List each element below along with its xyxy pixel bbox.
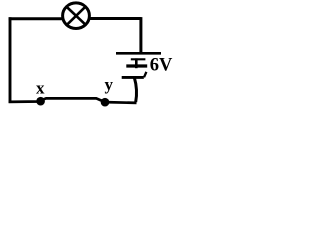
svg-text:6V: 6V xyxy=(150,55,173,75)
svg-text:y: y xyxy=(105,75,114,94)
wire top-left segment xyxy=(9,17,62,20)
node x (terminal dot) xyxy=(36,97,45,106)
wire top-right segment xyxy=(90,17,141,20)
wire left side xyxy=(9,17,12,103)
battery short plate lower bar xyxy=(126,64,147,67)
wire bottom xyxy=(9,98,137,103)
wire right side xyxy=(139,17,142,52)
battery third plate end tick xyxy=(144,72,146,77)
wire battery to bottom xyxy=(134,78,136,102)
svg-text:x: x xyxy=(36,79,45,98)
battery short plate upper bar xyxy=(131,58,146,60)
lamp L1 xyxy=(63,3,90,29)
battery B1 xyxy=(116,53,161,77)
node y (terminal dot) xyxy=(101,98,110,107)
battery internal stem xyxy=(135,58,138,68)
battery long plate (top) xyxy=(116,52,161,55)
battery third plate xyxy=(122,76,144,79)
